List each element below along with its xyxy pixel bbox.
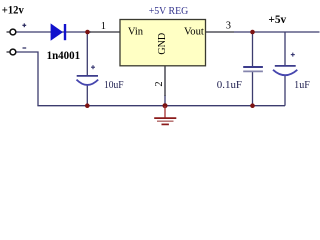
- svg-text:Vout: Vout: [184, 26, 204, 37]
- svg-text:1uF: 1uF: [294, 80, 310, 91]
- svg-text:0.1uF: 0.1uF: [217, 80, 243, 91]
- svg-text:+5v: +5v: [268, 14, 286, 26]
- svg-text:GND: GND: [157, 33, 168, 55]
- svg-text:1n4001: 1n4001: [47, 50, 81, 62]
- svg-text:1: 1: [101, 21, 106, 32]
- svg-text:10uF: 10uF: [104, 80, 124, 91]
- svg-text:+12v: +12v: [2, 5, 24, 17]
- svg-text:Vin: Vin: [128, 26, 143, 37]
- svg-text:3: 3: [226, 21, 231, 32]
- svg-text:+5V REG: +5V REG: [149, 6, 189, 17]
- svg-text:2: 2: [154, 81, 165, 86]
